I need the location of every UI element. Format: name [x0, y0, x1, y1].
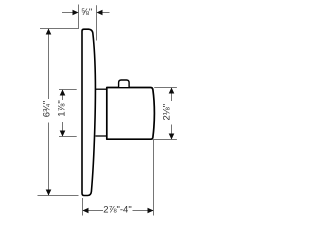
dim 2-1/8 dimension line lower segment — [171, 125, 173, 140]
knob top button bump — [119, 80, 130, 87]
arrow 1-7/8 top (points up) — [60, 90, 66, 96]
dim 2-7/8-4 dimension line left segment — [83, 210, 104, 212]
dim 6-3/4 top extension line — [40, 28, 79, 30]
dim 6-3/4 dimension line upper segment — [48, 29, 50, 100]
arrow 6-3/4 top (points up) — [46, 29, 52, 35]
svg-text:⅝": ⅝" — [81, 7, 92, 18]
dim 5/8 right extension line — [96, 5, 98, 40]
svg-text:2⅞"-4": 2⅞"-4" — [103, 205, 131, 216]
neck top line — [96, 88, 107, 90]
dim 2-1/8 dimension line upper segment — [171, 88, 173, 102]
escutcheon plate outline — [82, 29, 95, 195]
dim 2-1/8 top extension line — [154, 87, 177, 89]
dim 6-3/4 dimension line lower segment — [48, 123, 50, 196]
dim 5/8 left tail line — [62, 12, 74, 14]
arrow 6-3/4 bottom (points down) — [46, 190, 52, 196]
dim 1-7/8 dimension line upper segment — [62, 90, 64, 101]
arrow 2-1/8 top (points up) — [169, 88, 175, 94]
dim 2-1/8 bottom extension line — [153, 139, 177, 141]
dim 2-7/8-4 dimension line right segment — [133, 210, 154, 212]
arrow 2-1/8 bottom (points down) — [169, 134, 175, 140]
svg-text:6¾": 6¾" — [41, 101, 52, 118]
arrow 2-7/8-4 left (points left) — [83, 208, 89, 214]
dim 1-7/8 dimension line lower segment — [62, 122, 64, 137]
svg-text:2⅛": 2⅛" — [162, 104, 173, 121]
arrow 1-7/8 bottom (points down) — [60, 131, 66, 137]
arrow 5/8 right (points left) — [97, 10, 103, 16]
svg-text:1⅞": 1⅞" — [57, 100, 68, 117]
dim 1-7/8 bottom extension line — [59, 136, 77, 138]
neck bottom line — [96, 135, 107, 137]
arrow 2-7/8-4 right (points right) — [148, 208, 154, 214]
handle knob body — [107, 88, 155, 140]
dim 2-7/8-4 left extension line — [82, 198, 84, 216]
dim 1-7/8 top extension line — [59, 89, 77, 91]
dim 5/8 left extension line — [78, 5, 80, 29]
dim 5/8 right tail line — [102, 12, 110, 14]
dim 6-3/4 bottom extension line — [38, 195, 79, 197]
dim 2-7/8-4 right extension line — [153, 140, 155, 216]
arrow 5/8 left (points right) — [73, 10, 79, 16]
